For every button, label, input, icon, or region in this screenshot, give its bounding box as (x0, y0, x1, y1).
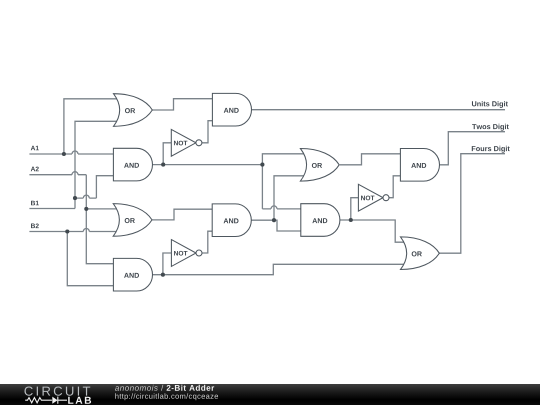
and-gate AND2 (113, 148, 152, 181)
wire B1 input (29, 208, 75, 210)
wire NOT3 in riser (351, 198, 359, 220)
and-gate AND5 (301, 204, 340, 237)
wire A1 input (29, 151, 113, 154)
not-gate NOT1 (171, 129, 196, 156)
label AND4 (224, 218, 239, 223)
wire B2 descent to AND3 (67, 232, 113, 286)
wire NOT1 in riser (163, 143, 171, 165)
junction NOT1 input (161, 163, 165, 167)
label AND5 (312, 218, 327, 223)
junction B1 (73, 196, 77, 200)
wire OR3 out to AND6 (340, 154, 401, 165)
wire OR2 out to AND4 (152, 209, 212, 220)
not-gate NOT3 (358, 184, 383, 211)
wire OR1 out to AND1 (152, 99, 212, 110)
and-gate AND6 (400, 149, 439, 182)
wire B1 branch to AND2 (75, 176, 113, 198)
and-gate AND1 (212, 93, 251, 126)
label AND1 (224, 108, 239, 113)
junction A1 (62, 152, 66, 156)
label OR1 (125, 108, 135, 113)
label OR3 (312, 163, 322, 168)
footer bar (0, 384, 540, 405)
wire NOT2 out to AND4 (202, 231, 212, 253)
wire AND4 out (252, 220, 301, 231)
or-gate OR4 (401, 237, 440, 270)
label output Twos Digit (472, 124, 509, 131)
or-gate OR1 (114, 94, 153, 127)
label input A2 (31, 167, 39, 172)
label output Fours Digit (472, 146, 510, 153)
wire A1 riser to OR1 (64, 99, 117, 154)
wire AND6 out Twos Digit (439, 132, 505, 165)
label NOT1 (174, 141, 187, 146)
junction B2 (65, 229, 69, 233)
label output Units Digit (472, 101, 508, 108)
footer author text (115, 385, 158, 391)
label AND2 (124, 163, 139, 168)
junction A2 (84, 207, 88, 211)
junction carry node (260, 163, 264, 167)
label input A1 (31, 146, 39, 151)
or-gate OR3 (300, 149, 339, 182)
wire OR4 out Fours Digit (439, 154, 505, 254)
wire NOT3 out to AND6 (389, 176, 400, 198)
label OR2 (125, 218, 135, 223)
wire NOT2 in riser (163, 253, 172, 275)
label AND3 (124, 273, 139, 278)
wire carry branch to OR3 (262, 154, 304, 209)
wire NOT1 out to AND1 (202, 121, 213, 143)
label NOT2 (174, 251, 187, 256)
wire B1 riser to OR1 (75, 121, 117, 208)
not-gate NOT2 (171, 240, 196, 267)
wire carry branch to AND5 (262, 206, 300, 209)
wire AND1 out Units Digit (252, 109, 505, 111)
wire B2 input (29, 229, 117, 232)
label AND6 (411, 163, 426, 168)
label input B1 (31, 201, 39, 206)
or-gate OR2 (113, 204, 152, 237)
junction NOT2 input (161, 273, 165, 277)
junction AND4 out node (272, 218, 276, 222)
label OR4 (412, 251, 422, 256)
logo resistor-diode squiggle (25, 398, 52, 403)
footer url text (115, 393, 218, 400)
label input B2 (31, 223, 39, 228)
wire AND5 out to OR4 (339, 220, 404, 242)
and-gate AND3 (113, 258, 152, 291)
wire A2 input (29, 172, 86, 175)
wire A2 branch to OR2 (86, 208, 117, 210)
wire A2 descent (86, 175, 113, 264)
CircuitLab logo (0, 384, 540, 405)
wire AND2 out carry (152, 164, 263, 166)
label NOT3 (361, 196, 374, 201)
wire AND3 out (152, 264, 404, 274)
wire AND4 riser to OR3 (274, 176, 304, 220)
junction NOT3 input (349, 218, 353, 222)
and-gate AND4 (212, 204, 251, 237)
